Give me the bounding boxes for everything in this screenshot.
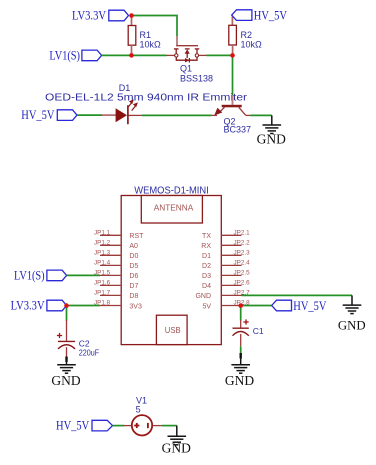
- svg-text:LV3.3V: LV3.3V: [72, 9, 106, 23]
- body diode: [185, 58, 189, 63]
- ground (C2): [51, 357, 80, 388]
- pin JP1.4: [100, 264, 122, 266]
- drain pin: [199, 54, 207, 56]
- wire JP2.7 to ground: [242, 294, 353, 296]
- svg-text:JP2.2: JP2.2: [234, 239, 251, 246]
- capacitor C2: [57, 320, 75, 357]
- wire Q1 drain junction down to Q2 base: [232, 55, 234, 95]
- svg-text:D6: D6: [129, 273, 138, 280]
- substrate arrow (points up): [185, 49, 190, 53]
- wire Q2 collector to ground: [250, 114, 271, 116]
- wire HV_5V flag to D1 anode: [77, 114, 102, 116]
- source stem: [175, 49, 177, 54]
- svg-text:RX: RX: [201, 243, 211, 250]
- svg-text:HV_5V: HV_5V: [254, 8, 287, 22]
- svg-text:TX: TX: [202, 233, 211, 240]
- net flag HV_5V (top right): [232, 8, 287, 22]
- pin JP1.5: [100, 274, 122, 276]
- junction dot LV3.3V / R1 top: [129, 13, 134, 18]
- svg-text:Q1: Q1: [180, 64, 192, 74]
- capacitor C1: [233, 319, 249, 346]
- wire JP2.8 down to C1: [240, 306, 242, 321]
- svg-text:D4: D4: [202, 283, 211, 290]
- wire LV3.3V rail to gate branch: [132, 16, 178, 37]
- svg-text:JP1.1: JP1.1: [94, 229, 111, 236]
- wire JP2.8 to HV_5V flag: [242, 305, 272, 307]
- drain stem: [196, 49, 198, 54]
- pin JP2.3: [221, 254, 241, 256]
- collector: [239, 107, 246, 115]
- svg-text:10kΩ: 10kΩ: [241, 40, 263, 50]
- svg-text:D5: D5: [129, 263, 138, 270]
- junction dot overlay LV3.3V/C2: [64, 303, 69, 308]
- svg-text:D3: D3: [202, 273, 211, 280]
- ground (Q2): [257, 115, 286, 146]
- net flag LV1(S) (top): [49, 49, 101, 63]
- svg-text:LV1(S): LV1(S): [14, 269, 45, 283]
- svg-text:WEMOS-D1-MINI: WEMOS-D1-MINI: [134, 185, 209, 196]
- svg-text:GND: GND: [338, 318, 366, 332]
- wire C1 to ground: [240, 346, 242, 353]
- LED D1: [102, 99, 142, 124]
- pin JP2.1: [221, 234, 241, 236]
- gate pin L from LV3.3V: [176, 36, 178, 46]
- svg-text:OED-EL-1L2 5mm 940nm IR Emmite: OED-EL-1L2 5mm 940nm IR Emmiter: [45, 92, 248, 103]
- pin JP2.5: [221, 274, 241, 276]
- pin JP1.2: [100, 244, 122, 246]
- wire LV3.3V to JP1.8: [67, 305, 101, 307]
- svg-text:220uF: 220uF: [79, 347, 99, 357]
- svg-text:RST: RST: [129, 233, 144, 240]
- wire D1 cathode to Q2 emitter: [142, 114, 212, 116]
- svg-text:JP1.7: JP1.7: [94, 289, 111, 296]
- net flag LV3.3V (module): [11, 299, 67, 313]
- net flag HV_5V (module): [272, 299, 327, 313]
- svg-text:10kΩ: 10kΩ: [140, 40, 162, 50]
- svg-text:GND: GND: [225, 373, 254, 388]
- svg-text:JP1.6: JP1.6: [94, 279, 111, 286]
- svg-text:LV1(S): LV1(S): [49, 49, 80, 63]
- svg-text:GND: GND: [257, 132, 286, 147]
- antenna box: [141, 196, 202, 224]
- pin JP1.7: [100, 294, 122, 296]
- svg-text:GND: GND: [162, 441, 191, 456]
- resistor R2: [229, 16, 237, 56]
- svg-text:GND: GND: [195, 293, 211, 300]
- svg-text:BC337: BC337: [224, 124, 252, 134]
- transistor Q1 (BSS138 MOSFET): [167, 36, 207, 63]
- pin JP1.8: [100, 305, 122, 307]
- USB box: [156, 315, 187, 344]
- net flag HV_5V (V1): [56, 419, 113, 433]
- net flag LV3.3V (top): [72, 9, 129, 23]
- pin JP1.3: [100, 254, 122, 256]
- wire HV_5V to V1: [113, 425, 125, 427]
- pin JP1.1: [100, 234, 122, 236]
- transistor Q2 (BC337): [212, 95, 251, 115]
- svg-text:D2: D2: [202, 263, 211, 270]
- svg-text:D1: D1: [202, 253, 211, 260]
- svg-text:3V3: 3V3: [129, 303, 142, 310]
- svg-text:JP2.3: JP2.3: [234, 249, 251, 256]
- svg-text:A0: A0: [129, 243, 138, 250]
- resistor R1: [128, 16, 136, 56]
- pin JP2.8: [221, 305, 241, 307]
- pin JP2.6: [221, 284, 241, 286]
- svg-text:ANTENNA: ANTENNA: [154, 203, 194, 213]
- svg-text:JP2.4: JP2.4: [234, 259, 251, 266]
- pin circles: [175, 54, 178, 57]
- svg-text:GND: GND: [51, 373, 80, 388]
- left pins JP1.1-JP1.8: [94, 229, 144, 310]
- wire LV3.3V down to C2: [66, 306, 68, 321]
- svg-text:5: 5: [136, 404, 141, 414]
- light arrows: [128, 99, 138, 110]
- emitter with arrow: [212, 114, 218, 116]
- ground (V1): [162, 426, 191, 456]
- svg-text:5V: 5V: [202, 303, 211, 310]
- svg-text:D1: D1: [119, 83, 131, 93]
- net flag HV_5V (LED): [21, 108, 77, 122]
- svg-text:JP2.1: JP2.1: [234, 229, 251, 236]
- svg-text:D8: D8: [129, 293, 138, 300]
- junction dot Q1 drain / R2 bottom: [230, 53, 235, 58]
- ground (C1): [225, 353, 254, 388]
- junction dot overlay JP2.8/C1: [238, 303, 243, 308]
- ground (module JP2.7): [338, 295, 366, 332]
- body connection loop: [176, 57, 197, 60]
- svg-text:JP1.2: JP1.2: [94, 239, 111, 246]
- svg-text:JP2.6: JP2.6: [234, 279, 251, 286]
- svg-text:D0: D0: [129, 253, 138, 260]
- wire LV1(S) to JP1.5: [67, 274, 100, 276]
- svg-text:JP2.5: JP2.5: [234, 269, 251, 276]
- pin JP2.4: [221, 264, 241, 266]
- right pins JP2.1-JP2.8: [195, 229, 250, 310]
- wire V1 to ground: [162, 425, 177, 427]
- svg-text:D7: D7: [129, 283, 138, 290]
- source pin: [167, 54, 175, 56]
- pin JP1.6: [100, 284, 122, 286]
- svg-text:JP1.4: JP1.4: [94, 259, 111, 266]
- svg-text:HV_5V: HV_5V: [21, 108, 54, 122]
- junction dot R1 bottom / LV1 rail: [129, 53, 134, 58]
- svg-text:C1: C1: [253, 326, 264, 336]
- wire LV1(S) to Q1 source: [102, 54, 167, 56]
- channel contact caps: [174, 48, 179, 50]
- svg-text:JP1.3: JP1.3: [94, 249, 111, 256]
- svg-text:LV3.3V: LV3.3V: [11, 299, 45, 313]
- svg-text:BSS138: BSS138: [180, 73, 213, 83]
- svg-text:USB: USB: [165, 325, 181, 335]
- svg-text:HV_5V: HV_5V: [56, 419, 89, 433]
- net flag LV1(S) (module): [14, 269, 67, 283]
- svg-text:HV_5V: HV_5V: [293, 299, 326, 313]
- voltage source V1: [123, 415, 161, 435]
- pin JP2.7: [221, 294, 241, 296]
- wire Q1 drain to R2 junction: [207, 54, 233, 56]
- pin JP2.2: [221, 244, 241, 246]
